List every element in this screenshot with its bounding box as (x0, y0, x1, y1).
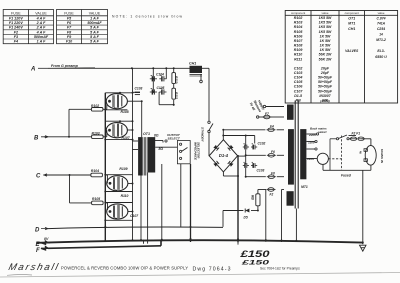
svg-text:50+50μF: 50+50μF (318, 85, 333, 89)
svg-text:110V: 110V (308, 141, 316, 145)
svg-text:R110: R110 (121, 194, 129, 198)
svg-text:F10: F10 (66, 40, 73, 44)
svg-text:RB: RB (251, 195, 255, 200)
svg-text:R102: R102 (294, 16, 303, 20)
svg-text:C107: C107 (130, 214, 139, 218)
svg-text:R110: R110 (174, 76, 178, 84)
svg-text:VALVES: VALVES (345, 49, 359, 53)
svg-text:VALUE: VALUE (89, 11, 101, 15)
svg-text:Fused: Fused (341, 174, 352, 178)
svg-text:A: A (30, 67, 35, 73)
svg-text:4 A F: 4 A F (36, 30, 46, 34)
svg-text:R107: R107 (122, 136, 131, 140)
svg-text:1K5 5W: 1K5 5W (319, 25, 332, 29)
svg-text:R106: R106 (294, 34, 304, 38)
svg-text:1K5 5W: 1K5 5W (319, 30, 332, 34)
svg-text:R104: R104 (294, 25, 303, 29)
svg-text:5 A F: 5 A F (90, 35, 99, 39)
svg-text:CH1: CH1 (348, 27, 355, 31)
svg-text:D1-4: D1-4 (219, 153, 229, 158)
svg-text:500mAF: 500mAF (87, 21, 102, 25)
svg-text:C103: C103 (135, 87, 143, 91)
svg-text:8Ω: 8Ω (154, 134, 159, 138)
svg-text:NOTE: 1 denotes slow blow: NOTE: 1 denotes slow blow (112, 15, 183, 19)
svg-text:SELECT: SELECT (168, 136, 181, 140)
svg-text:R107: R107 (294, 39, 304, 43)
svg-text:1K5 5W: 1K5 5W (319, 16, 332, 20)
svg-text:F1 120V: F1 120V (9, 16, 23, 20)
svg-text:F2: F2 (270, 192, 274, 196)
svg-text:741A: 741A (377, 22, 386, 26)
svg-text:Dwg 7064-3: Dwg 7064-3 (193, 266, 231, 272)
svg-text:56K 2W: 56K 2W (319, 53, 332, 57)
svg-text:C102: C102 (258, 142, 266, 146)
svg-text:120V: 120V (307, 157, 315, 161)
svg-text:F1 240V: F1 240V (9, 26, 23, 30)
svg-text:SELECTOR: SELECTOR (197, 142, 201, 159)
svg-text:4 A F: 4 A F (36, 16, 46, 20)
svg-text:C102: C102 (294, 66, 303, 70)
svg-text:R105: R105 (294, 30, 304, 34)
svg-text:C: C (36, 174, 41, 180)
svg-text:R109: R109 (294, 48, 303, 52)
svg-text:R111: R111 (174, 92, 178, 99)
svg-text:From G preamp: From G preamp (51, 64, 79, 68)
svg-text:26μF: 26μF (320, 66, 330, 70)
svg-text:56K 2W: 56K 2W (319, 57, 332, 61)
svg-text:26μF: 26μF (320, 71, 330, 75)
svg-text:1 A F: 1 A F (90, 16, 99, 20)
svg-text:F1 220V: F1 220V (9, 21, 23, 25)
svg-text:D1-5: D1-5 (294, 94, 303, 98)
svg-text:50+50μF: 50+50μF (318, 89, 333, 93)
svg-text:OT1: OT1 (348, 17, 355, 21)
svg-text:C104: C104 (294, 76, 303, 80)
svg-text:C105: C105 (294, 80, 304, 84)
svg-text:FUSE: FUSE (11, 11, 21, 15)
svg-text:value: value (322, 11, 329, 15)
svg-text:R103: R103 (294, 21, 303, 25)
svg-text:STANDBY: STANDBY (201, 127, 205, 143)
svg-text:FUSE: FUSE (64, 11, 74, 15)
svg-text:D: D (35, 227, 40, 233)
svg-text:£150: £150 (239, 249, 270, 260)
svg-text:IN3007: IN3007 (319, 94, 331, 98)
svg-text:F7: F7 (265, 112, 269, 116)
svg-text:MAINS IN: MAINS IN (380, 149, 384, 164)
svg-text:select: select (318, 130, 328, 134)
svg-text:R105: R105 (92, 197, 100, 201)
svg-text:1K5 5W: 1K5 5W (319, 21, 332, 25)
svg-text:C105: C105 (157, 86, 165, 90)
svg-text:F: F (36, 248, 40, 254)
svg-text:F2 F1: F2 F1 (352, 132, 361, 136)
svg-text:C103: C103 (294, 71, 303, 75)
svg-text:1K 5W: 1K 5W (320, 44, 331, 48)
svg-text:0V: 0V (44, 237, 49, 241)
svg-text:F4: F4 (270, 125, 274, 129)
svg-text:50+50μF: 50+50μF (318, 80, 333, 84)
svg-text:1K 5W: 1K 5W (320, 39, 331, 43)
svg-text:R108: R108 (294, 44, 303, 48)
svg-text:component: component (345, 11, 359, 15)
svg-text:8Ω: 8Ω (159, 147, 164, 151)
svg-text:OT1: OT1 (143, 132, 150, 136)
svg-text:C254: C254 (377, 27, 385, 31)
svg-text:component: component (291, 11, 305, 15)
svg-text:R103: R103 (92, 131, 100, 135)
svg-text:C107: C107 (294, 89, 304, 93)
svg-text:R111: R111 (294, 57, 302, 61)
svg-text:14: 14 (379, 33, 383, 37)
svg-text:(150Ω): (150Ω) (320, 99, 330, 103)
svg-text:MT1-2: MT1-2 (376, 38, 386, 42)
svg-text:VALUE: VALUE (35, 11, 47, 15)
svg-text:£150: £150 (240, 261, 270, 267)
svg-text:5 A F: 5 A F (90, 40, 99, 44)
svg-text:5 A F: 5 A F (90, 26, 99, 30)
svg-text:POWERCEL & REVERB COMBO 100W O: POWERCEL & REVERB COMBO 100W O/P & POWER… (61, 265, 188, 270)
svg-text:50+50μF: 50+50μF (318, 76, 333, 80)
svg-text:6550 U: 6550 U (375, 55, 387, 59)
svg-text:F4: F4 (14, 40, 18, 44)
svg-text:5 A F: 5 A F (90, 30, 99, 34)
svg-text:1K 5W: 1K 5W (320, 34, 331, 38)
svg-text:D5: D5 (244, 216, 248, 220)
svg-text:500mAF: 500mAF (34, 35, 49, 39)
svg-text:2 A F: 2 A F (36, 26, 46, 30)
svg-text:2 A F: 2 A F (36, 21, 46, 25)
svg-text:R110: R110 (294, 53, 302, 57)
svg-text:1K 5W: 1K 5W (320, 48, 331, 52)
svg-text:MT1: MT1 (301, 185, 308, 189)
svg-text:220V: 220V (308, 133, 317, 137)
svg-text:MT1: MT1 (348, 22, 355, 26)
svg-text:B: B (34, 135, 39, 141)
svg-text:R104: R104 (91, 169, 99, 173)
svg-text:value: value (378, 11, 385, 15)
svg-text:C103: C103 (257, 169, 265, 173)
svg-text:R109: R109 (119, 167, 127, 171)
svg-text:EL3-: EL3- (377, 49, 385, 53)
svg-text:C104: C104 (156, 72, 164, 76)
svg-text:1 A F: 1 A F (37, 40, 46, 44)
svg-text:F8: F8 (271, 171, 275, 175)
svg-text:C106: C106 (294, 85, 304, 89)
svg-text:Marshall: Marshall (7, 262, 60, 273)
svg-text:F6: F6 (271, 150, 275, 154)
svg-text:R108: R108 (121, 110, 129, 114)
svg-text:Sec 7064-1&2 for Preamps: Sec 7064-1&2 for Preamps (260, 267, 300, 271)
svg-text:CH1: CH1 (189, 62, 196, 66)
svg-text:R102: R102 (91, 104, 99, 108)
svg-text:C.874: C.874 (377, 17, 386, 21)
